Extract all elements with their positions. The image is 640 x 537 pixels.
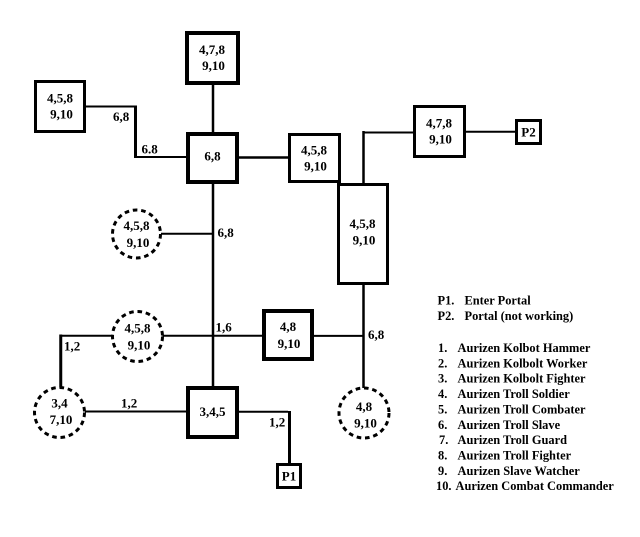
svg-text:6,8: 6,8: [218, 225, 235, 240]
room A box 4,7,8 9,10 top: [187, 33, 238, 83]
svg-text:P1: P1: [282, 469, 296, 484]
svg-text:4,7,8: 4,7,8: [199, 42, 226, 57]
wire jog to C horizontal: [134, 156, 188, 158]
legend item 10: [436, 479, 614, 493]
svg-text:9,10: 9,10: [202, 58, 225, 73]
svg-text:6,8: 6,8: [368, 327, 385, 342]
svg-text:1,2: 1,2: [269, 415, 285, 430]
svg-text:9,10: 9,10: [278, 336, 301, 351]
svg-text:Aurizen Combat Commander: Aurizen Combat Commander: [456, 479, 615, 493]
svg-text:6.8: 6.8: [142, 142, 159, 157]
svg-text:3,4,5: 3,4,5: [200, 404, 227, 419]
svg-text:Portal (not working): Portal (not working): [465, 309, 574, 323]
wire K to main vertical: [161, 233, 214, 235]
room M dashed circle 3,4 7,10: [35, 388, 85, 438]
legend P2 line: [438, 309, 574, 323]
legend P1 line: [438, 294, 532, 308]
svg-text:4,5,8: 4,5,8: [47, 91, 74, 106]
svg-text:6,8: 6,8: [204, 149, 221, 164]
svg-text:9,10: 9,10: [429, 132, 452, 147]
room F box 4,7,8 9,10 right: [415, 107, 465, 157]
svg-text:3.: 3.: [438, 372, 447, 386]
wire B to jog horizontal: [85, 106, 134, 108]
svg-text:4,5,8: 4,5,8: [350, 216, 377, 231]
svg-text:9,10: 9,10: [50, 107, 73, 122]
wire F-P2 horizontal: [464, 131, 517, 133]
portal P1 box: [278, 465, 301, 488]
svg-text:9,10: 9,10: [353, 233, 376, 248]
wire C-D horizontal: [237, 156, 291, 159]
svg-text:3,4: 3,4: [51, 396, 68, 411]
legend item 9: [438, 464, 580, 478]
svg-text:1.: 1.: [438, 341, 447, 355]
legend item 8: [438, 449, 572, 463]
wire jog to P1 vertical: [288, 411, 291, 465]
legend item 6: [438, 418, 561, 432]
svg-text:1,2: 1,2: [121, 396, 137, 411]
legend item 5: [438, 402, 586, 416]
svg-text:9,10: 9,10: [128, 338, 151, 353]
svg-text:8.: 8.: [438, 449, 447, 463]
room K dashed circle 4,5,8 9,10 upper: [113, 210, 161, 258]
legend item 4: [438, 387, 570, 401]
wire top jog vertical to E: [362, 131, 365, 185]
legend item 7: [439, 433, 567, 447]
svg-text:4,7,8: 4,7,8: [426, 116, 453, 131]
svg-text:5.: 5.: [438, 402, 447, 416]
left jog vertical: [59, 335, 62, 389]
svg-text:10.: 10.: [436, 479, 452, 493]
svg-text:9,10: 9,10: [127, 235, 150, 250]
svg-text:7,10: 7,10: [50, 412, 73, 427]
svg-text:P2: P2: [521, 125, 535, 140]
svg-text:P1.: P1.: [438, 294, 455, 308]
svg-text:Aurizen Slave Watcher: Aurizen Slave Watcher: [458, 464, 581, 478]
svg-text:Aurizen Kolbolt Worker: Aurizen Kolbolt Worker: [458, 356, 588, 370]
room B box 4,5,8 9,10 top-left: [36, 82, 85, 132]
main vertical wire: [212, 182, 215, 388]
svg-text:Aurizen Kolbolt Fighter: Aurizen Kolbolt Fighter: [458, 372, 587, 386]
legend item 1: [438, 341, 591, 355]
svg-text:7.: 7.: [439, 433, 448, 447]
room C box 6,8: [188, 134, 237, 182]
wire jog to F horizontal: [364, 132, 416, 134]
svg-text:Aurizen Kolbot Hammer: Aurizen Kolbot Hammer: [458, 341, 591, 355]
svg-text:4,8: 4,8: [356, 399, 373, 414]
wire M-I horizontal: [85, 411, 188, 413]
row wire middle segment: [162, 335, 264, 337]
wire jog vertical: [134, 106, 137, 157]
svg-text:Aurizen Troll Fighter: Aurizen Troll Fighter: [458, 449, 572, 463]
svg-text:Aurizen Troll Guard: Aurizen Troll Guard: [458, 433, 568, 447]
svg-text:Aurizen Troll Combater: Aurizen Troll Combater: [458, 402, 587, 416]
wire I to jog horizontal: [237, 411, 288, 413]
svg-text:9.: 9.: [438, 464, 447, 478]
svg-text:6,8: 6,8: [113, 109, 130, 124]
room I box 3,4,5: [188, 388, 237, 437]
svg-text:4.: 4.: [438, 387, 447, 401]
svg-text:4,5,8: 4,5,8: [125, 321, 152, 336]
room E tall box 4,5,8 9,10: [339, 185, 388, 284]
wire E-N vertical: [362, 283, 365, 388]
svg-text:4,5,8: 4,5,8: [124, 218, 151, 233]
wire A-C vertical: [212, 83, 215, 134]
svg-text:1,2: 1,2: [64, 339, 80, 354]
legend item 3: [438, 372, 586, 386]
svg-text:9,10: 9,10: [354, 416, 377, 431]
svg-text:6.: 6.: [438, 418, 447, 432]
row wire left segment: [60, 335, 114, 337]
svg-text:Aurizen Troll Slave: Aurizen Troll Slave: [458, 418, 561, 432]
room N dashed circle 4,8 9,10: [339, 388, 389, 438]
svg-text:P2.: P2.: [438, 309, 455, 323]
svg-text:Aurizen Troll Soldier: Aurizen Troll Soldier: [458, 387, 571, 401]
portal P2 box: [517, 121, 541, 144]
svg-text:1,6: 1,6: [216, 320, 233, 335]
svg-text:4,5,8: 4,5,8: [301, 143, 328, 158]
room H box 4,8 9,10: [264, 311, 312, 359]
wire H to vertical: [312, 335, 365, 337]
legend item 2: [438, 356, 588, 370]
svg-text:9,10: 9,10: [304, 159, 327, 174]
svg-text:4,8: 4,8: [280, 319, 297, 334]
svg-text:2.: 2.: [438, 356, 447, 370]
svg-text:Enter Portal: Enter Portal: [465, 294, 532, 308]
room D box 4,5,8 9,10 middle: [290, 135, 340, 182]
room L dashed circle 4,5,8 9,10 mid-left: [113, 312, 163, 362]
